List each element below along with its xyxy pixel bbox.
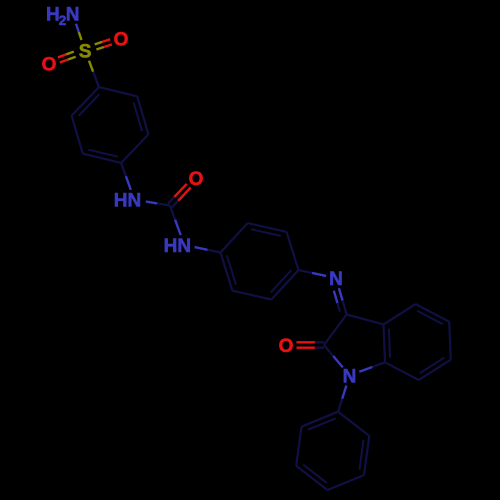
double bond C=O urea carbonyl	[174, 184, 187, 197]
benzene ring 4 (N-phenyl)	[338, 412, 369, 436]
bond N1-phenyl ipso	[338, 399, 342, 412]
svg-text:H: H	[46, 5, 60, 26]
bond C3-C2 oxindole	[324, 315, 347, 346]
bond H2N-S	[76, 24, 79, 32]
benzene ring 2 (central phenylene)	[221, 223, 248, 252]
double bond S=O upper right	[96, 47, 104, 50]
svg-text:N: N	[128, 191, 142, 212]
svg-text:N: N	[66, 5, 80, 26]
svg-text:S: S	[79, 41, 92, 62]
double bond C2=O oxindole carbonyl	[297, 347, 315, 349]
double bond N=C3 imine	[339, 288, 343, 301]
bond urea NH-C1' benzene ring 2	[208, 250, 221, 253]
svg-text:H: H	[164, 236, 178, 257]
bond C3-C3a oxindole	[347, 315, 384, 325]
bond C4'-N imine nitrogen	[299, 270, 313, 273]
bond C2-N1 oxindole	[324, 345, 333, 356]
svg-text:N: N	[329, 269, 343, 290]
double bond S=O lower left	[66, 52, 74, 55]
svg-text:2: 2	[59, 13, 67, 28]
benzene ring 1 (4-sulfamoylphenyl)	[99, 87, 137, 96]
svg-text:O: O	[42, 54, 57, 75]
bond N1-C7a oxindole	[372, 362, 385, 367]
bond S-C1 to benzene ring 1	[89, 61, 93, 72]
svg-text:H: H	[114, 191, 128, 212]
svg-text:O: O	[114, 29, 129, 50]
svg-text:O: O	[189, 169, 204, 190]
svg-text:O: O	[279, 336, 294, 357]
svg-text:N: N	[343, 366, 357, 387]
bond C4-N urea NH left	[121, 163, 126, 176]
bond urea C-NH right	[170, 206, 175, 220]
benzo ring of oxindole	[384, 304, 416, 324]
bond urea NH-C carbonyl carbon	[157, 203, 170, 205]
svg-text:N: N	[177, 236, 191, 257]
